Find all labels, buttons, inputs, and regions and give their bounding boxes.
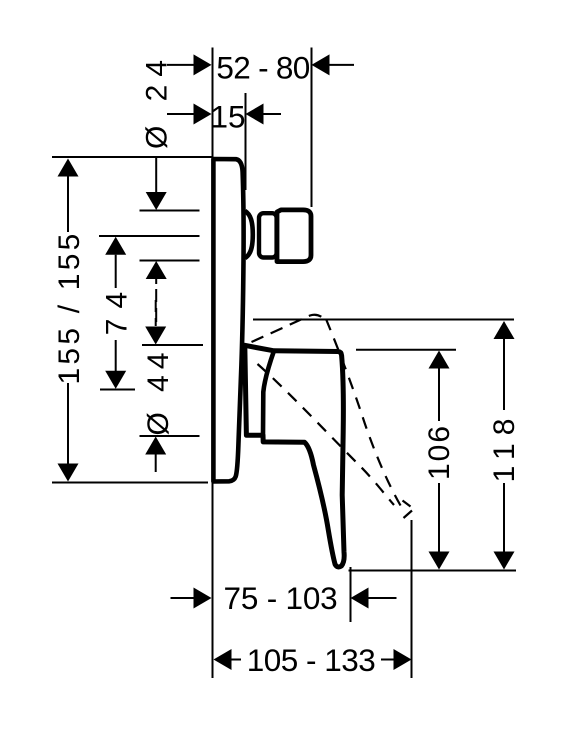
diameter 44 top arrowhead	[145, 327, 166, 345]
dimension 15 left tail	[167, 113, 195, 115]
extension line 106 top	[356, 349, 456, 351]
svg-text:Ø 24: Ø 24	[141, 52, 174, 149]
dashed lever raised position: tip	[403, 501, 413, 519]
dashed lever raised position: upper edge	[252, 315, 325, 342]
diameter 44 top tail dashes	[155, 300, 157, 326]
diameter 24 leader line	[155, 157, 157, 193]
dimension 155/155 top arrowhead	[58, 159, 79, 177]
diameter 24 top arrowhead	[146, 192, 167, 210]
dimension 118 bottom arrowhead	[494, 552, 515, 570]
dimension 105-133 right arrowhead	[394, 649, 412, 670]
dimension 74 top arrowhead	[105, 237, 126, 255]
diameter 24 bottom tail dashes	[155, 279, 157, 322]
dimension 74 bottom arrowhead	[105, 371, 126, 389]
dimension 118 lower tail	[503, 483, 505, 552]
dimension 118 upper tail	[503, 339, 505, 410]
extension line 75-103 right	[350, 567, 352, 622]
extension line handle tip level	[349, 570, 517, 572]
dimension 52-80 right arrowhead	[312, 54, 330, 75]
svg-text:15: 15	[210, 98, 245, 134]
dimension 15 left arrowhead	[194, 104, 212, 125]
handle hub inner line	[263, 351, 274, 436]
svg-text:118: 118	[488, 411, 521, 483]
dimension 106 top arrowhead	[429, 351, 450, 369]
svg-text:74: 74	[101, 282, 134, 335]
svg-text:155 / 155: 155 / 155	[53, 231, 86, 385]
dimension 74 upper tail	[115, 255, 117, 288]
diameter 24 bottom arrowhead	[146, 261, 167, 279]
dimension 155/155 line upper segment	[67, 172, 69, 232]
dimension 15 right arrowhead	[246, 104, 264, 125]
handle lever (solid position)	[245, 345, 344, 567]
dimension 118 top arrowhead	[494, 321, 515, 339]
dimension 74 lower tail	[115, 340, 117, 371]
dimension 52-80 right tail	[330, 64, 355, 66]
extension line 155 top	[52, 156, 212, 158]
dimension 15 right tail	[264, 113, 282, 115]
adapter piece	[259, 213, 277, 257]
dimension 52-80 left arrowhead	[194, 54, 212, 75]
pipe bump on plate	[245, 211, 253, 258]
stop knob	[277, 210, 311, 262]
extension line 155 bottom	[52, 482, 208, 484]
dimension 105-133 right stub	[381, 659, 394, 661]
dimension 75-103 right tail	[369, 597, 397, 599]
dimension 155/155 bottom arrowhead	[58, 464, 79, 482]
extension line hub top	[142, 344, 203, 346]
diameter 44 bottom tail	[155, 455, 157, 473]
svg-text:106: 106	[423, 424, 456, 480]
dimension 106 upper tail	[438, 369, 440, 422]
extension line pipe top	[140, 210, 200, 212]
extension line 52-80 right	[311, 48, 313, 208]
extension line 105-133 right	[411, 520, 413, 678]
dashed lever raised position: outer edge	[326, 319, 405, 513]
dimension 106 lower tail	[438, 483, 440, 552]
svg-text:52 - 80: 52 - 80	[216, 49, 309, 85]
wall line	[212, 48, 214, 679]
extension line pipe bottom	[140, 260, 200, 262]
dimension 52-80 left tail	[167, 64, 195, 66]
extension line 118 top	[253, 319, 514, 321]
svg-text:75 - 103: 75 - 103	[224, 580, 338, 616]
diameter 44 bottom arrowhead	[145, 437, 166, 455]
svg-text:Ø 44: Ø 44	[142, 346, 175, 435]
extension line hub bottom	[140, 435, 200, 437]
extension line 74 top / pipe centerline	[99, 235, 200, 237]
dimension 75-103 left tail	[171, 597, 196, 599]
dashed lever raised position: inner edge	[258, 364, 395, 505]
escutcheon plate	[213, 159, 243, 482]
dimension 155/155 line lower segment	[67, 383, 69, 467]
dimension 75-103 right arrowhead	[351, 588, 369, 609]
dimension 105-133 left arrowhead	[214, 649, 232, 670]
extension line 74 bottom	[100, 389, 135, 391]
svg-text:105 - 133: 105 - 133	[247, 642, 376, 678]
dimension 106 bottom arrowhead	[429, 552, 450, 570]
dimension 105-133 left stub	[232, 659, 242, 661]
dimension 75-103 left arrowhead	[194, 588, 212, 609]
extension line 15 right	[245, 93, 247, 190]
